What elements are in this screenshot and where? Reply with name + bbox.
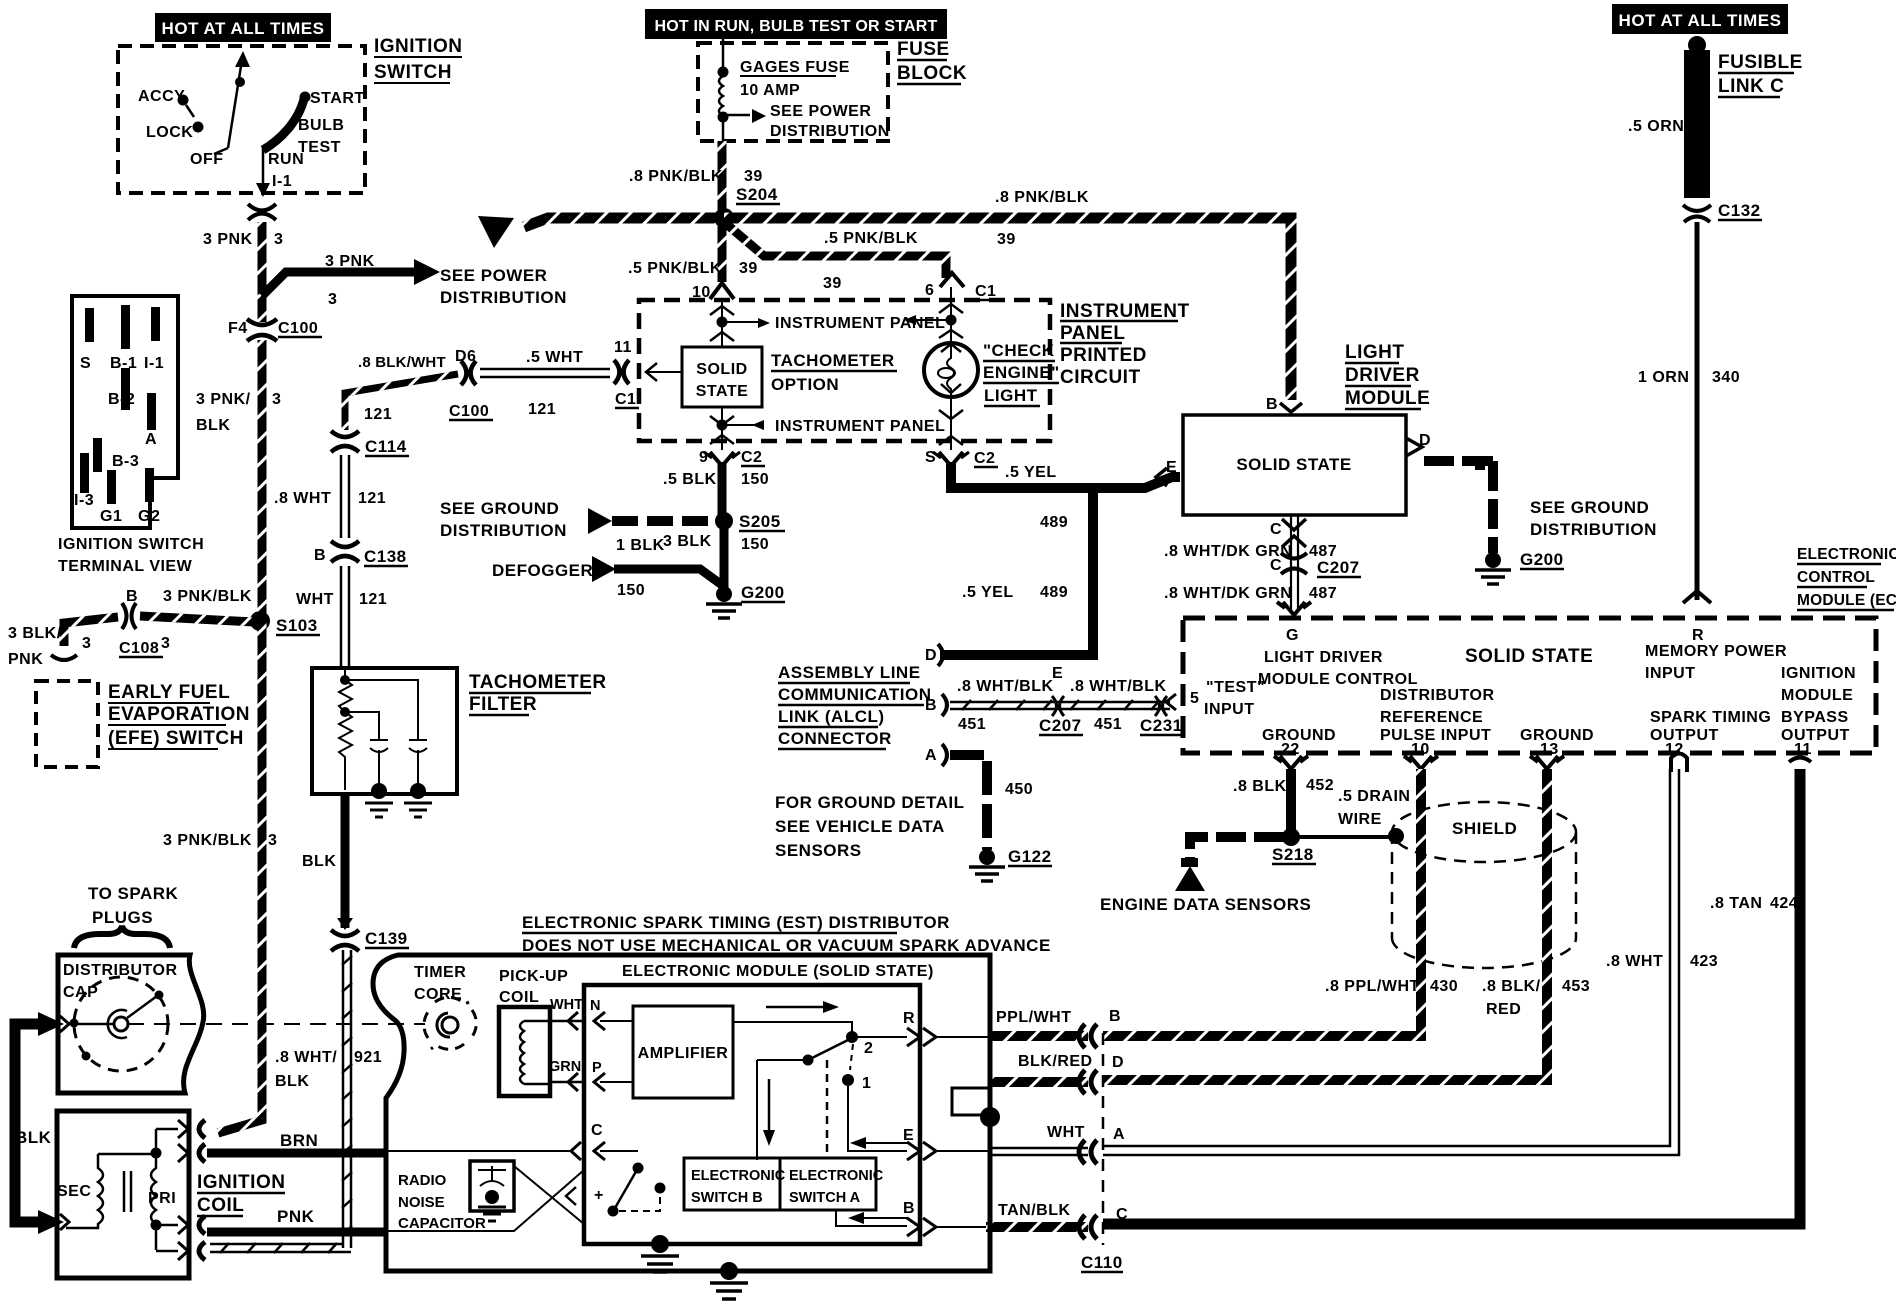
svg-text:C1: C1 bbox=[975, 283, 996, 300]
svg-text:ENGINE": ENGINE" bbox=[983, 363, 1060, 382]
svg-text:"TEST": "TEST" bbox=[1206, 679, 1265, 696]
svg-text:BRN: BRN bbox=[280, 1131, 318, 1150]
pin 10 symbol bbox=[710, 283, 734, 299]
wire .8 PNK/BLK S204 to light driver module (long horizontal) bbox=[724, 218, 1291, 400]
wire BLK filter to C139 bbox=[341, 794, 350, 928]
svg-text:B-3: B-3 bbox=[112, 453, 139, 470]
wire 1 to E bbox=[848, 1086, 907, 1151]
svg-text:PICK-UP: PICK-UP bbox=[499, 968, 568, 985]
svg-text:.8 WHT/DK GRN: .8 WHT/DK GRN bbox=[1164, 585, 1292, 602]
svg-text:10 AMP: 10 AMP bbox=[740, 82, 800, 99]
svg-text:ELECTRONIC MODULE (SOLID STATE: ELECTRONIC MODULE (SOLID STATE) bbox=[622, 963, 934, 980]
svg-text:EARLY FUEL: EARLY FUEL bbox=[108, 682, 230, 703]
svg-text:ELECTRONIC: ELECTRONIC bbox=[691, 1168, 786, 1184]
BRN wire inside EST to C bbox=[387, 1150, 638, 1152]
wire .8 WHT/BLK 921 (C139 to coil) bbox=[343, 950, 351, 1248]
BLK heavy wire loop (distributor to coil SEC) bbox=[15, 1012, 69, 1234]
wire .8 BLK/RED 453 (pin 13 down, left to C110 D) bbox=[1103, 769, 1547, 1080]
svg-text:2: 2 bbox=[864, 1040, 873, 1057]
svg-text:DOES NOT USE MECHANICAL OR VAC: DOES NOT USE MECHANICAL OR VACUUM SPARK … bbox=[522, 936, 1051, 955]
EST outer box bbox=[373, 955, 990, 1271]
svg-text:1: 1 bbox=[862, 1075, 871, 1092]
svg-text:3 BLK: 3 BLK bbox=[663, 533, 712, 550]
svg-text:DISTRIBUTION: DISTRIBUTION bbox=[440, 521, 567, 540]
svg-text:C: C bbox=[1116, 1206, 1128, 1223]
svg-text:BLK: BLK bbox=[15, 1128, 52, 1147]
electronic module box bbox=[584, 985, 920, 1244]
svg-text:"CHECK: "CHECK bbox=[983, 341, 1055, 360]
wire WHT module E to C110 A (double) bbox=[990, 1148, 1088, 1155]
svg-text:TO SPARK: TO SPARK bbox=[88, 884, 178, 903]
svg-text:PLUGS: PLUGS bbox=[92, 908, 153, 927]
svg-text:121: 121 bbox=[358, 490, 386, 507]
svg-text:DISTRIBUTION: DISTRIBUTION bbox=[770, 123, 890, 140]
wire 3 PNK vertical (ignition switch to F4 C100) bbox=[258, 222, 267, 322]
svg-text:B: B bbox=[1109, 1008, 1121, 1025]
tachometer filter box bbox=[312, 668, 457, 794]
svg-text:B: B bbox=[925, 697, 937, 714]
svg-text:G200: G200 bbox=[741, 583, 785, 602]
svg-text:LIGHT: LIGHT bbox=[984, 386, 1038, 405]
tach left pin / C1 11 connector bbox=[614, 360, 620, 384]
ground G200 (right) bbox=[1485, 552, 1501, 568]
svg-text:3: 3 bbox=[82, 635, 91, 652]
ECM dashed box bbox=[1183, 618, 1876, 753]
node S204 bbox=[714, 208, 734, 228]
svg-text:C139: C139 bbox=[365, 929, 408, 948]
svg-text:424: 424 bbox=[1770, 895, 1798, 912]
svg-text:WHT: WHT bbox=[550, 997, 583, 1013]
svg-text:TACHOMETER: TACHOMETER bbox=[469, 672, 607, 693]
svg-text:G1: G1 bbox=[100, 508, 122, 525]
svg-text:PNK: PNK bbox=[8, 651, 43, 668]
svg-text:G: G bbox=[1286, 627, 1299, 644]
svg-text:ACCY: ACCY bbox=[138, 88, 185, 105]
svg-text:3: 3 bbox=[161, 635, 170, 652]
svg-text:S: S bbox=[925, 449, 936, 466]
svg-text:3: 3 bbox=[268, 832, 277, 849]
svg-text:G122: G122 bbox=[1008, 847, 1052, 866]
wire PPL/WHT module R to C110 B bbox=[990, 1031, 1088, 1041]
module pins right R E B bbox=[907, 1028, 936, 1236]
svg-text:B-2: B-2 bbox=[108, 391, 135, 408]
svg-text:A: A bbox=[1113, 1126, 1125, 1143]
svg-text:TACHOMETER: TACHOMETER bbox=[771, 351, 895, 370]
svg-text:SEE GROUND: SEE GROUND bbox=[440, 499, 559, 518]
switch lever with up arrow bbox=[214, 51, 250, 154]
svg-text:1 ORN: 1 ORN bbox=[1638, 369, 1689, 386]
connector C139 bbox=[331, 930, 359, 936]
svg-text:.5 PNK/BLK: .5 PNK/BLK bbox=[628, 260, 722, 277]
BLK/RED stub box bbox=[952, 1088, 990, 1115]
svg-text:3 PNK/BLK: 3 PNK/BLK bbox=[163, 588, 252, 605]
svg-text:.5 DRAIN: .5 DRAIN bbox=[1338, 788, 1410, 805]
wire .5 PNK/BLK S204 to C1 pin6 bbox=[724, 222, 946, 278]
switch contacts bbox=[732, 1022, 852, 1032]
svg-text:MEMORY POWER: MEMORY POWER bbox=[1645, 643, 1787, 660]
svg-text:PPL/WHT: PPL/WHT bbox=[996, 1009, 1072, 1026]
svg-text:S103: S103 bbox=[276, 616, 318, 635]
svg-text:121: 121 bbox=[359, 591, 387, 608]
svg-text:.8 BLK/: .8 BLK/ bbox=[1482, 978, 1541, 995]
svg-text:489: 489 bbox=[1040, 514, 1068, 531]
svg-text:.5 PNK/BLK: .5 PNK/BLK bbox=[824, 230, 918, 247]
connector C108 bbox=[122, 603, 127, 629]
ignition switch terminal view block bbox=[72, 296, 178, 528]
svg-text:CONTROL: CONTROL bbox=[1797, 569, 1875, 586]
svg-text:R: R bbox=[903, 1010, 915, 1027]
wire .5 YEL from ALCL D up to module E bbox=[940, 488, 1093, 655]
svg-text:BULB: BULB bbox=[298, 117, 344, 134]
svg-text:IGNITION: IGNITION bbox=[197, 1172, 285, 1193]
svg-text:CONNECTOR: CONNECTOR bbox=[778, 729, 892, 748]
svg-text:A: A bbox=[145, 431, 157, 448]
svg-text:39: 39 bbox=[739, 260, 758, 277]
svg-text:CIRCUIT: CIRCUIT bbox=[1060, 367, 1141, 388]
gages fuse bbox=[719, 39, 750, 141]
wire PNK (coil to module +) bbox=[207, 1228, 387, 1237]
svg-text:MODULE: MODULE bbox=[1781, 687, 1853, 704]
svg-text:11: 11 bbox=[1794, 741, 1812, 758]
svg-text:WHT: WHT bbox=[1047, 1124, 1085, 1141]
svg-text:IGNITION: IGNITION bbox=[374, 36, 462, 57]
svg-text:FILTER: FILTER bbox=[469, 694, 537, 715]
module interior: C pin lever bbox=[633, 1163, 644, 1174]
svg-text:COIL: COIL bbox=[197, 1195, 244, 1216]
svg-text:921: 921 bbox=[354, 1049, 382, 1066]
svg-text:RED: RED bbox=[1486, 1001, 1521, 1018]
svg-text:39: 39 bbox=[744, 168, 763, 185]
contact LOCK bbox=[193, 122, 204, 133]
svg-text:10: 10 bbox=[1411, 741, 1430, 758]
svg-text:D: D bbox=[1112, 1054, 1124, 1071]
svg-text:S204: S204 bbox=[736, 185, 778, 204]
amplifier wires bbox=[600, 1021, 633, 1082]
svg-text:E: E bbox=[1052, 665, 1063, 682]
svg-text:SPARK TIMING: SPARK TIMING bbox=[1650, 709, 1771, 726]
svg-text:PRINTED: PRINTED bbox=[1060, 345, 1147, 366]
svg-text:1 BLK: 1 BLK bbox=[616, 537, 665, 554]
svg-text:423: 423 bbox=[1690, 953, 1718, 970]
svg-text:G200: G200 bbox=[1520, 550, 1564, 569]
svg-text:C207: C207 bbox=[1039, 716, 1082, 735]
svg-text:.8 PPL/WHT: .8 PPL/WHT bbox=[1325, 978, 1420, 995]
svg-text:5: 5 bbox=[1190, 690, 1199, 707]
ground G200 (instrument panel) bbox=[716, 586, 732, 602]
svg-text:9: 9 bbox=[699, 449, 708, 466]
svg-text:E: E bbox=[903, 1127, 914, 1144]
svg-text:INSTRUMENT PANEL: INSTRUMENT PANEL bbox=[775, 315, 945, 332]
label HOT AT ALL TIMES (right) bbox=[1612, 4, 1788, 34]
svg-text:HOT AT ALL TIMES: HOT AT ALL TIMES bbox=[1619, 11, 1782, 30]
svg-text:.5 WHT: .5 WHT bbox=[526, 349, 583, 366]
svg-text:B: B bbox=[126, 588, 138, 605]
check engine lower wire bbox=[939, 397, 963, 450]
svg-text:.5 ORN: .5 ORN bbox=[1628, 118, 1684, 135]
svg-text:C132: C132 bbox=[1718, 201, 1761, 220]
top arrow bbox=[766, 1006, 825, 1009]
svg-text:HOT IN RUN, BULB TEST OR START: HOT IN RUN, BULB TEST OR START bbox=[654, 18, 937, 35]
wire .8 TAN 424 (pin 11 down, left to C110 C) bbox=[1103, 769, 1800, 1224]
node S103 bbox=[250, 611, 270, 631]
svg-text:PANEL: PANEL bbox=[1060, 323, 1125, 344]
svg-text:3 PNK: 3 PNK bbox=[325, 253, 375, 270]
pin 9 C2 bbox=[710, 452, 734, 466]
wire .5 BLK 150 down to S205 bbox=[718, 462, 727, 516]
svg-text:453: 453 bbox=[1562, 978, 1590, 995]
svg-text:C100: C100 bbox=[278, 320, 318, 337]
connector C132 bbox=[1683, 205, 1711, 211]
wire 3 PNK/BLK to EFE (C108 - S103) bbox=[64, 616, 254, 646]
module ground bbox=[651, 1235, 669, 1253]
svg-text:3 PNK: 3 PNK bbox=[203, 231, 253, 248]
check engine light bulb bbox=[924, 343, 978, 397]
svg-text:SEE VEHICLE DATA: SEE VEHICLE DATA bbox=[775, 817, 945, 836]
svg-text:SEE POWER: SEE POWER bbox=[440, 266, 547, 285]
wire .8 BLK/WHT (C100 to C114) bbox=[345, 374, 458, 430]
pin 6 / C1 symbol bbox=[940, 273, 964, 287]
svg-text:INPUT: INPUT bbox=[1204, 701, 1255, 718]
svg-text:TEST: TEST bbox=[298, 139, 341, 156]
svg-text:SWITCH: SWITCH bbox=[374, 62, 452, 83]
svg-text:GAGES FUSE: GAGES FUSE bbox=[740, 59, 850, 76]
svg-text:C114: C114 bbox=[365, 437, 407, 456]
svg-text:22: 22 bbox=[1281, 741, 1300, 758]
svg-text:TAN/BLK: TAN/BLK bbox=[998, 1202, 1071, 1219]
wire S218 to engine data sensors bbox=[1190, 837, 1284, 858]
svg-text:450: 450 bbox=[1005, 781, 1033, 798]
instrument panel lower (tach bottom) bbox=[710, 407, 762, 450]
wire TAN/BLK module B to C110 C bbox=[986, 1222, 1088, 1232]
svg-text:MODULE: MODULE bbox=[1345, 388, 1430, 409]
svg-text:SEE POWER: SEE POWER bbox=[770, 103, 871, 120]
svg-text:150: 150 bbox=[741, 471, 769, 488]
wire BLK/RED stub to C110 D bbox=[990, 1077, 1088, 1087]
distributor cap bbox=[58, 955, 204, 1093]
svg-text:LINK C: LINK C bbox=[1718, 76, 1784, 97]
ECM left pin 5 / C231 chevron bbox=[1166, 694, 1176, 710]
svg-text:START: START bbox=[310, 90, 365, 107]
svg-text:C: C bbox=[1270, 521, 1282, 538]
svg-text:WHT: WHT bbox=[296, 591, 334, 608]
ignition switch title bbox=[374, 36, 462, 83]
svg-text:INSTRUMENT: INSTRUMENT bbox=[1060, 301, 1190, 322]
svg-text:C100: C100 bbox=[449, 403, 489, 420]
svg-text:SOLID STATE: SOLID STATE bbox=[1465, 646, 1593, 667]
svg-text:S205: S205 bbox=[739, 512, 781, 531]
wire BRN (coil to module C) bbox=[207, 1149, 387, 1158]
svg-text:HOT AT ALL TIMES: HOT AT ALL TIMES bbox=[162, 19, 325, 38]
defogger wire bbox=[614, 569, 722, 585]
svg-text:3: 3 bbox=[328, 291, 337, 308]
svg-text:ENGINE DATA SENSORS: ENGINE DATA SENSORS bbox=[1100, 895, 1311, 914]
svg-text:OPTION: OPTION bbox=[771, 375, 839, 394]
svg-text:R: R bbox=[1692, 627, 1704, 644]
wire .8 WHT 121 (C114-C138) double bbox=[341, 455, 349, 538]
svg-text:150: 150 bbox=[741, 536, 769, 553]
svg-text:C207: C207 bbox=[1317, 558, 1360, 577]
svg-text:3 PNK/: 3 PNK/ bbox=[196, 391, 251, 408]
filter internals bbox=[339, 668, 427, 790]
svg-text:ELECTRONIC: ELECTRONIC bbox=[1797, 546, 1896, 563]
connector F4 C100 bbox=[228, 319, 322, 341]
svg-text:LINK (ALCL): LINK (ALCL) bbox=[778, 707, 885, 726]
svg-text:BLOCK: BLOCK bbox=[897, 63, 967, 84]
svg-text:COMMUNICATION: COMMUNICATION bbox=[778, 685, 932, 704]
wire .5 WHT (C100 to C1) double line bbox=[480, 369, 610, 377]
branch 3 PNK arrow to SEE POWER DISTRIBUTION bbox=[262, 253, 440, 308]
run to I-1 wire and arrow bbox=[262, 148, 265, 184]
svg-text:DRIVER: DRIVER bbox=[1345, 365, 1420, 386]
svg-text:487: 487 bbox=[1309, 585, 1337, 602]
node S205 bbox=[715, 512, 733, 530]
svg-text:451: 451 bbox=[1094, 716, 1122, 733]
shield cylinder bbox=[1392, 802, 1576, 968]
svg-text:A: A bbox=[925, 747, 937, 764]
svg-text:11: 11 bbox=[614, 339, 632, 356]
svg-text:SOLID: SOLID bbox=[696, 361, 747, 378]
svg-text:LIGHT DRIVER: LIGHT DRIVER bbox=[1264, 649, 1383, 666]
svg-text:MODULE (ECM): MODULE (ECM) bbox=[1797, 592, 1896, 609]
fusible link C bbox=[1688, 36, 1706, 54]
svg-text:B: B bbox=[903, 1200, 915, 1217]
svg-text:340: 340 bbox=[1712, 369, 1740, 386]
svg-text:BLK: BLK bbox=[275, 1073, 309, 1090]
instrument panel dashed box bbox=[639, 300, 1050, 441]
svg-text:CAPACITOR: CAPACITOR bbox=[398, 1215, 486, 1232]
svg-text:ELECTRONIC: ELECTRONIC bbox=[789, 1168, 884, 1184]
dashed rotor line across to timer core bbox=[128, 1023, 425, 1025]
ECM pin R top chevron bbox=[1683, 591, 1711, 603]
svg-text:TIMER: TIMER bbox=[414, 964, 466, 981]
svg-text:G2: G2 bbox=[138, 508, 160, 525]
pin S C2 bbox=[939, 452, 963, 466]
svg-text:N: N bbox=[590, 998, 600, 1014]
svg-text:S: S bbox=[80, 355, 91, 372]
svg-text:C138: C138 bbox=[364, 547, 407, 566]
svg-text:I-1: I-1 bbox=[272, 173, 292, 190]
svg-text:PRI: PRI bbox=[148, 1190, 176, 1207]
svg-text:BLK: BLK bbox=[302, 853, 336, 870]
svg-text:BYPASS: BYPASS bbox=[1781, 709, 1849, 726]
svg-text:C2: C2 bbox=[974, 450, 995, 467]
wire .8 PPL/WHT 430 (pin 10 down, left to distributor B) bbox=[1103, 769, 1421, 1036]
pin B chevron atop light driver module bbox=[1280, 403, 1302, 412]
svg-text:DEFOGGER: DEFOGGER bbox=[492, 561, 593, 580]
label HOT IN RUN, BULB TEST OR START bbox=[645, 9, 947, 39]
wire to SEE GROUND DISTRIBUTION (dashed heavy) bbox=[612, 516, 715, 526]
svg-text:INPUT: INPUT bbox=[1645, 665, 1696, 682]
ground G122 bbox=[979, 849, 995, 865]
switch arc START-RUN bbox=[263, 99, 304, 150]
connector C114 bbox=[331, 431, 359, 437]
svg-text:DISTRIBUTOR: DISTRIBUTOR bbox=[1380, 687, 1495, 704]
svg-text:C231: C231 bbox=[1140, 716, 1183, 735]
EFE switch dashed box bbox=[36, 681, 98, 767]
svg-text:EVAPORATION: EVAPORATION bbox=[108, 704, 250, 725]
svg-text:WIRE: WIRE bbox=[1338, 811, 1382, 828]
svg-text:C110: C110 bbox=[1081, 1253, 1123, 1272]
svg-text:SOLID STATE: SOLID STATE bbox=[1236, 455, 1351, 474]
light driver module solid state box bbox=[1183, 415, 1406, 515]
svg-text:AMPLIFIER: AMPLIFIER bbox=[638, 1045, 729, 1062]
svg-text:451: 451 bbox=[958, 716, 986, 733]
fuse block dashed box bbox=[698, 43, 888, 141]
svg-text:D: D bbox=[925, 647, 937, 664]
wire .8 BLK 452 (pin22 to S218) bbox=[1286, 769, 1296, 830]
svg-text:489: 489 bbox=[1040, 584, 1068, 601]
svg-text:C108: C108 bbox=[119, 640, 159, 657]
svg-text:LIGHT: LIGHT bbox=[1345, 342, 1405, 363]
wires pick-up coil to module N P bbox=[550, 1021, 585, 1082]
svg-text:3: 3 bbox=[272, 391, 281, 408]
svg-text:.8 WHT/BLK: .8 WHT/BLK bbox=[1070, 678, 1167, 695]
svg-text:.8 WHT/: .8 WHT/ bbox=[275, 1049, 337, 1066]
svg-text:DISTRIBUTION: DISTRIBUTION bbox=[1530, 520, 1657, 539]
svg-text:452: 452 bbox=[1306, 777, 1334, 794]
svg-text:P: P bbox=[592, 1060, 602, 1076]
svg-text:121: 121 bbox=[528, 401, 556, 418]
wire .8 PNK/BLK fuse to S204 bbox=[718, 141, 727, 210]
svg-text:I-3: I-3 bbox=[74, 492, 94, 509]
module pin chevrons left bbox=[594, 1012, 605, 1160]
svg-text:REFERENCE: REFERENCE bbox=[1380, 709, 1483, 726]
svg-text:.5 YEL: .5 YEL bbox=[1005, 464, 1057, 481]
svg-text:B-1: B-1 bbox=[110, 355, 137, 372]
svg-text:SWITCH A: SWITCH A bbox=[789, 1190, 861, 1206]
connector C138 bbox=[331, 541, 359, 547]
svg-text:MODULE CONTROL: MODULE CONTROL bbox=[1258, 671, 1418, 688]
ignition coil box bbox=[57, 1111, 189, 1278]
svg-text:FOR GROUND DETAIL: FOR GROUND DETAIL bbox=[775, 793, 965, 812]
electronic switch boxes bbox=[684, 1158, 780, 1210]
svg-text:.8 BLK/WHT: .8 BLK/WHT bbox=[358, 354, 446, 371]
label HOT AT ALL TIMES (left) bbox=[155, 13, 331, 42]
svg-text:.8 PNK/BLK: .8 PNK/BLK bbox=[629, 168, 723, 185]
svg-text:E: E bbox=[1166, 459, 1177, 476]
svg-text:PNK: PNK bbox=[277, 1207, 315, 1226]
svg-text:F4: F4 bbox=[228, 320, 248, 337]
svg-text:39: 39 bbox=[823, 275, 842, 292]
svg-text:.8 BLK: .8 BLK bbox=[1233, 778, 1287, 795]
svg-text:.5 BLK: .5 BLK bbox=[663, 471, 717, 488]
svg-text:IGNITION SWITCH: IGNITION SWITCH bbox=[58, 536, 204, 553]
svg-text:SEE GROUND: SEE GROUND bbox=[1530, 498, 1649, 517]
amplifier box bbox=[633, 1006, 733, 1098]
ECM pin symbols bottom bbox=[1274, 754, 1811, 773]
module pin C / connector C207 wires down to ECM G bbox=[1291, 515, 1298, 612]
svg-text:C: C bbox=[591, 1122, 603, 1139]
svg-text:OUTPUT: OUTPUT bbox=[1650, 727, 1719, 744]
C110 dashed line bbox=[1102, 1033, 1105, 1245]
svg-text:.8 PNK/BLK: .8 PNK/BLK bbox=[995, 189, 1089, 206]
svg-text:ELECTRONIC SPARK TIMING (EST): ELECTRONIC SPARK TIMING (EST) DISTRIBUTO… bbox=[522, 913, 950, 932]
svg-text:LOCK: LOCK bbox=[146, 124, 193, 141]
svg-text:3 PNK/BLK: 3 PNK/BLK bbox=[163, 832, 252, 849]
svg-text:C1: C1 bbox=[615, 391, 636, 408]
check engine side upper bbox=[913, 287, 963, 344]
svg-text:S218: S218 bbox=[1272, 845, 1314, 864]
svg-text:.8 WHT: .8 WHT bbox=[1606, 953, 1663, 970]
dashed line to switch A bbox=[826, 1060, 829, 1158]
svg-text:ASSEMBLY LINE: ASSEMBLY LINE bbox=[778, 663, 921, 682]
svg-text:.8 WHT/BLK: .8 WHT/BLK bbox=[957, 678, 1054, 695]
svg-text:SEC: SEC bbox=[57, 1183, 91, 1200]
svg-text:TERMINAL VIEW: TERMINAL VIEW bbox=[58, 558, 193, 575]
svg-text:NOISE: NOISE bbox=[398, 1194, 445, 1211]
instrument panel upper wires (tach side) bbox=[710, 300, 760, 347]
svg-text:(EFE) SWITCH: (EFE) SWITCH bbox=[108, 728, 244, 749]
